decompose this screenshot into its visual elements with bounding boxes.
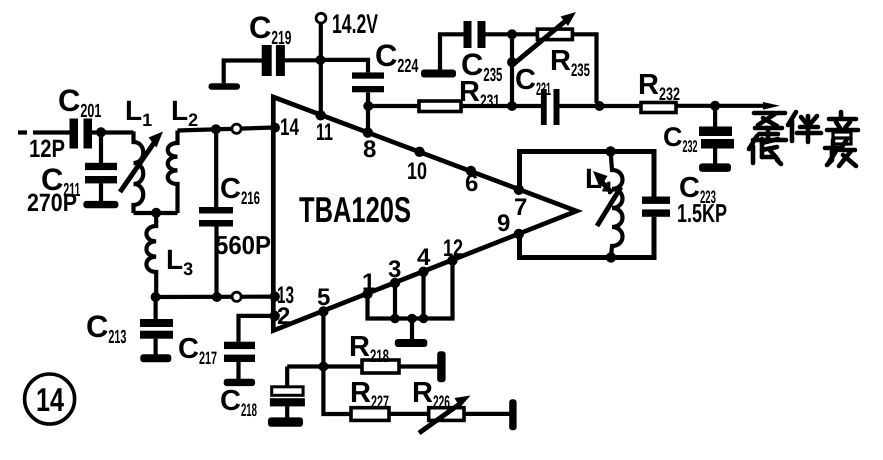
svg-text:9: 9 [497,210,510,237]
svg-text:1: 1 [362,269,375,296]
svg-text:6: 6 [465,170,478,197]
svg-text:5: 5 [317,284,330,311]
svg-text:14.2V: 14.2V [332,9,378,39]
svg-text:10: 10 [407,158,427,185]
svg-text:12P: 12P [29,135,65,163]
svg-text:270P: 270P [27,189,77,217]
svg-text:14: 14 [280,114,299,141]
svg-text:2: 2 [277,303,290,330]
svg-text:560P: 560P [215,230,271,260]
svg-text:4: 4 [417,244,431,271]
svg-text:14: 14 [36,381,64,418]
svg-text:3: 3 [388,256,401,283]
svg-text:7: 7 [514,194,527,221]
svg-text:8: 8 [363,136,376,163]
svg-text:12: 12 [443,235,463,262]
svg-text:11: 11 [316,119,333,146]
svg-text:1.5KP: 1.5KP [677,198,727,228]
svg-text:TBA120S: TBA120S [299,189,411,230]
